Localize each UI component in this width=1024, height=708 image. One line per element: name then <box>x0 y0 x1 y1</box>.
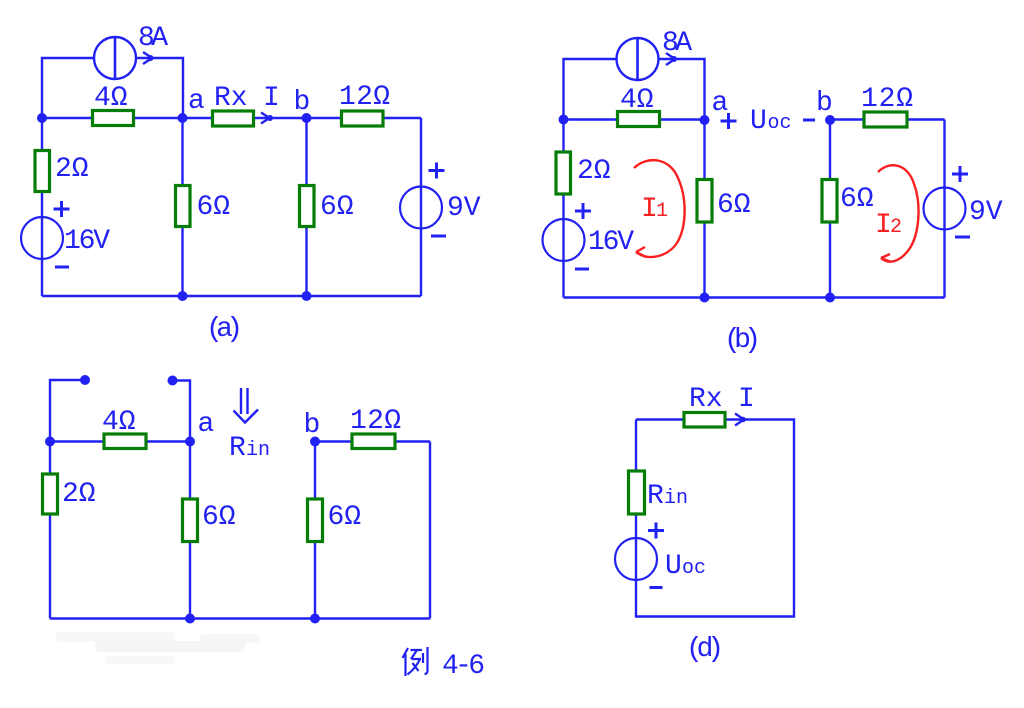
wire main rail right (c) <box>315 440 430 442</box>
svg-text:U: U <box>665 551 682 582</box>
plus sign 16V (a) <box>54 201 70 217</box>
resistor 6ohm right (b) <box>822 180 837 223</box>
wire top loop (b) <box>564 59 705 120</box>
wire vertical at node b (c) <box>314 442 316 619</box>
wire vertical at node b (b) <box>829 120 831 298</box>
wire top loop (a) <box>42 58 183 118</box>
label Uoc (d) <box>665 551 706 582</box>
minus sign 16V (a) <box>55 266 69 269</box>
svg-text:6Ω: 6Ω <box>717 190 751 221</box>
svg-text:2: 2 <box>890 216 902 239</box>
resistor 6ohm right (c) <box>308 499 323 542</box>
node dot bottom b (a) <box>302 291 312 301</box>
svg-text:Rx: Rx <box>214 83 248 114</box>
minus sign 16V (b) <box>575 268 589 271</box>
plus sign 9V (b) <box>952 166 968 182</box>
svg-text:a: a <box>188 86 205 117</box>
current source 8A (b) <box>617 38 659 80</box>
svg-text:R: R <box>229 433 246 464</box>
node dot left rail (b) <box>559 115 569 125</box>
wire right vertical (b) <box>943 120 945 298</box>
resistor 4ohm (b) <box>618 112 660 127</box>
wire main rail (a) <box>42 117 421 119</box>
resistor Rx (a) <box>213 111 254 126</box>
wire left terminal stub (c) <box>50 380 85 442</box>
svg-text:a: a <box>712 88 729 119</box>
resistor 6ohm left (c) <box>183 499 198 542</box>
wire rail left of gap (b) <box>564 118 705 120</box>
caption Li 4-6 (c) <box>403 647 486 682</box>
resistor 6ohm right (a) <box>300 186 315 227</box>
node a dot (a) <box>178 113 188 123</box>
resistor 12ohm (b) <box>864 112 907 127</box>
svg-text:I: I <box>738 384 755 415</box>
wire loop rectangle (d) <box>636 420 794 617</box>
svg-text:Rx: Rx <box>689 384 723 415</box>
svg-text:(d): (d) <box>686 634 724 665</box>
svg-text:(b): (b) <box>724 325 761 356</box>
wire bottom rail (b) <box>564 296 945 298</box>
svg-text:2Ω: 2Ω <box>577 156 611 187</box>
label I2 (b) <box>875 210 902 241</box>
node b dot (c) <box>310 437 320 447</box>
label Uoc (b) <box>750 106 792 137</box>
resistor 6ohm left (a) <box>176 186 191 227</box>
wire vertical at node a (a) <box>181 118 183 296</box>
svg-text:U: U <box>750 106 767 137</box>
wire right vertical (a) <box>420 118 422 296</box>
resistor 6ohm left (b) <box>697 180 712 223</box>
svg-text:8A: 8A <box>662 28 692 59</box>
resistor 4ohm (a) <box>93 111 134 126</box>
resistor 12ohm (a) <box>342 111 384 126</box>
svg-text:16V: 16V <box>64 226 110 257</box>
resistor 2ohm (b) <box>556 152 571 194</box>
svg-text:4Ω: 4Ω <box>94 83 128 114</box>
minus sign 9V (a) <box>431 235 446 238</box>
wire bottom rail (a) <box>42 295 421 297</box>
voltage source 16V circle (b) <box>543 219 585 261</box>
svg-text:6Ω: 6Ω <box>328 502 362 533</box>
wire left vertical (b) <box>562 120 564 298</box>
svg-text:oc: oc <box>682 557 706 580</box>
arrow current I (a) <box>261 113 273 124</box>
arrow current I (d) <box>735 414 746 426</box>
svg-text:4Ω: 4Ω <box>620 85 654 116</box>
mesh current arrow I2 (b) <box>878 165 919 262</box>
node b dot (a) <box>302 113 312 123</box>
svg-text:in: in <box>664 487 688 510</box>
wire bottom rail (c) <box>50 617 430 619</box>
terminal dot left stub (c) <box>80 375 90 385</box>
current source 8A (a) <box>94 37 136 79</box>
resistor 2ohm (c) <box>43 474 58 514</box>
svg-text:2Ω: 2Ω <box>55 154 89 185</box>
wire left vertical (a) <box>41 118 43 296</box>
svg-text:2Ω: 2Ω <box>62 479 96 510</box>
svg-text:12Ω: 12Ω <box>861 84 913 115</box>
label I1 (b) <box>641 194 668 225</box>
plus sign Uoc (d) <box>648 523 664 539</box>
arrow of 8A source (a) <box>143 52 154 64</box>
resistor 12ohm (c) <box>352 434 395 449</box>
resistor 2ohm (a) <box>35 151 50 192</box>
node dot bottom b (c) <box>310 614 320 624</box>
minus sign Uoc (b) <box>803 119 815 122</box>
svg-text:a: a <box>198 409 215 440</box>
svg-text:9V: 9V <box>447 193 481 224</box>
wire vertical at node a (b) <box>703 120 705 298</box>
voltage source 9V circle (a) <box>400 187 442 229</box>
voltage source 16V circle (a) <box>21 217 63 259</box>
svg-text:6Ω: 6Ω <box>320 192 354 223</box>
svg-text:16V: 16V <box>588 227 634 258</box>
wire right vertical (c) <box>429 442 431 619</box>
svg-text:I: I <box>263 83 280 114</box>
node a dot (c) <box>185 437 195 447</box>
wire main rail left (c) <box>50 440 190 442</box>
wire rail right of gap (b) <box>830 118 945 120</box>
svg-text:oc: oc <box>768 112 792 135</box>
label Rin (c) <box>229 433 270 464</box>
svg-text:4Ω: 4Ω <box>102 407 136 438</box>
svg-text:in: in <box>246 439 270 462</box>
node dot left rail (c) <box>45 437 55 447</box>
plus sign 16V (b) <box>575 203 591 219</box>
svg-text:b: b <box>304 410 321 441</box>
voltage source 9V circle (b) <box>924 188 966 230</box>
svg-text:8A: 8A <box>138 23 168 54</box>
node dot bottom a (c) <box>185 614 195 624</box>
svg-text:9V: 9V <box>969 197 1003 228</box>
wire right terminal stub (c) <box>173 381 191 442</box>
mesh current arrow I1 (b) <box>634 160 685 257</box>
arrow of 8A source (b) <box>666 53 677 65</box>
voltage source Uoc circle (d) <box>615 538 657 580</box>
svg-text:4-6: 4-6 <box>442 651 485 682</box>
svg-text:6Ω: 6Ω <box>202 502 236 533</box>
terminal dot right stub (c) <box>168 376 178 386</box>
resistor 4ohm (c) <box>104 434 146 449</box>
wire vertical at node b (a) <box>305 118 307 296</box>
svg-text:R: R <box>647 481 664 512</box>
wire vertical at node a (c) <box>189 442 191 619</box>
node dot bottom a (a) <box>178 291 188 301</box>
wire left vertical (c) <box>49 442 51 619</box>
svg-text:6Ω: 6Ω <box>197 192 231 223</box>
plus sign Uoc (b) <box>721 113 737 129</box>
resistor Rin (d) <box>629 471 645 514</box>
svg-text:6Ω: 6Ω <box>840 184 874 215</box>
svg-text:(a): (a) <box>206 314 243 345</box>
node b dot (b) <box>825 115 835 125</box>
label Rin (d) <box>647 481 688 512</box>
plus sign 9V (a) <box>429 163 445 179</box>
svg-text:12Ω: 12Ω <box>339 82 390 113</box>
svg-text:12Ω: 12Ω <box>350 406 401 437</box>
minus sign 9V (b) <box>955 236 970 239</box>
node dot bottom a (b) <box>700 293 710 303</box>
node a dot (b) <box>700 115 710 125</box>
svg-text:1: 1 <box>656 200 668 223</box>
node dot left rail (a) <box>37 113 47 123</box>
minus sign Uoc (d) <box>650 586 663 589</box>
svg-text:b: b <box>816 88 833 119</box>
resistor Rx (d) <box>684 413 725 428</box>
double arrow Rin (c) <box>234 388 259 423</box>
node dot bottom b (b) <box>825 293 835 303</box>
